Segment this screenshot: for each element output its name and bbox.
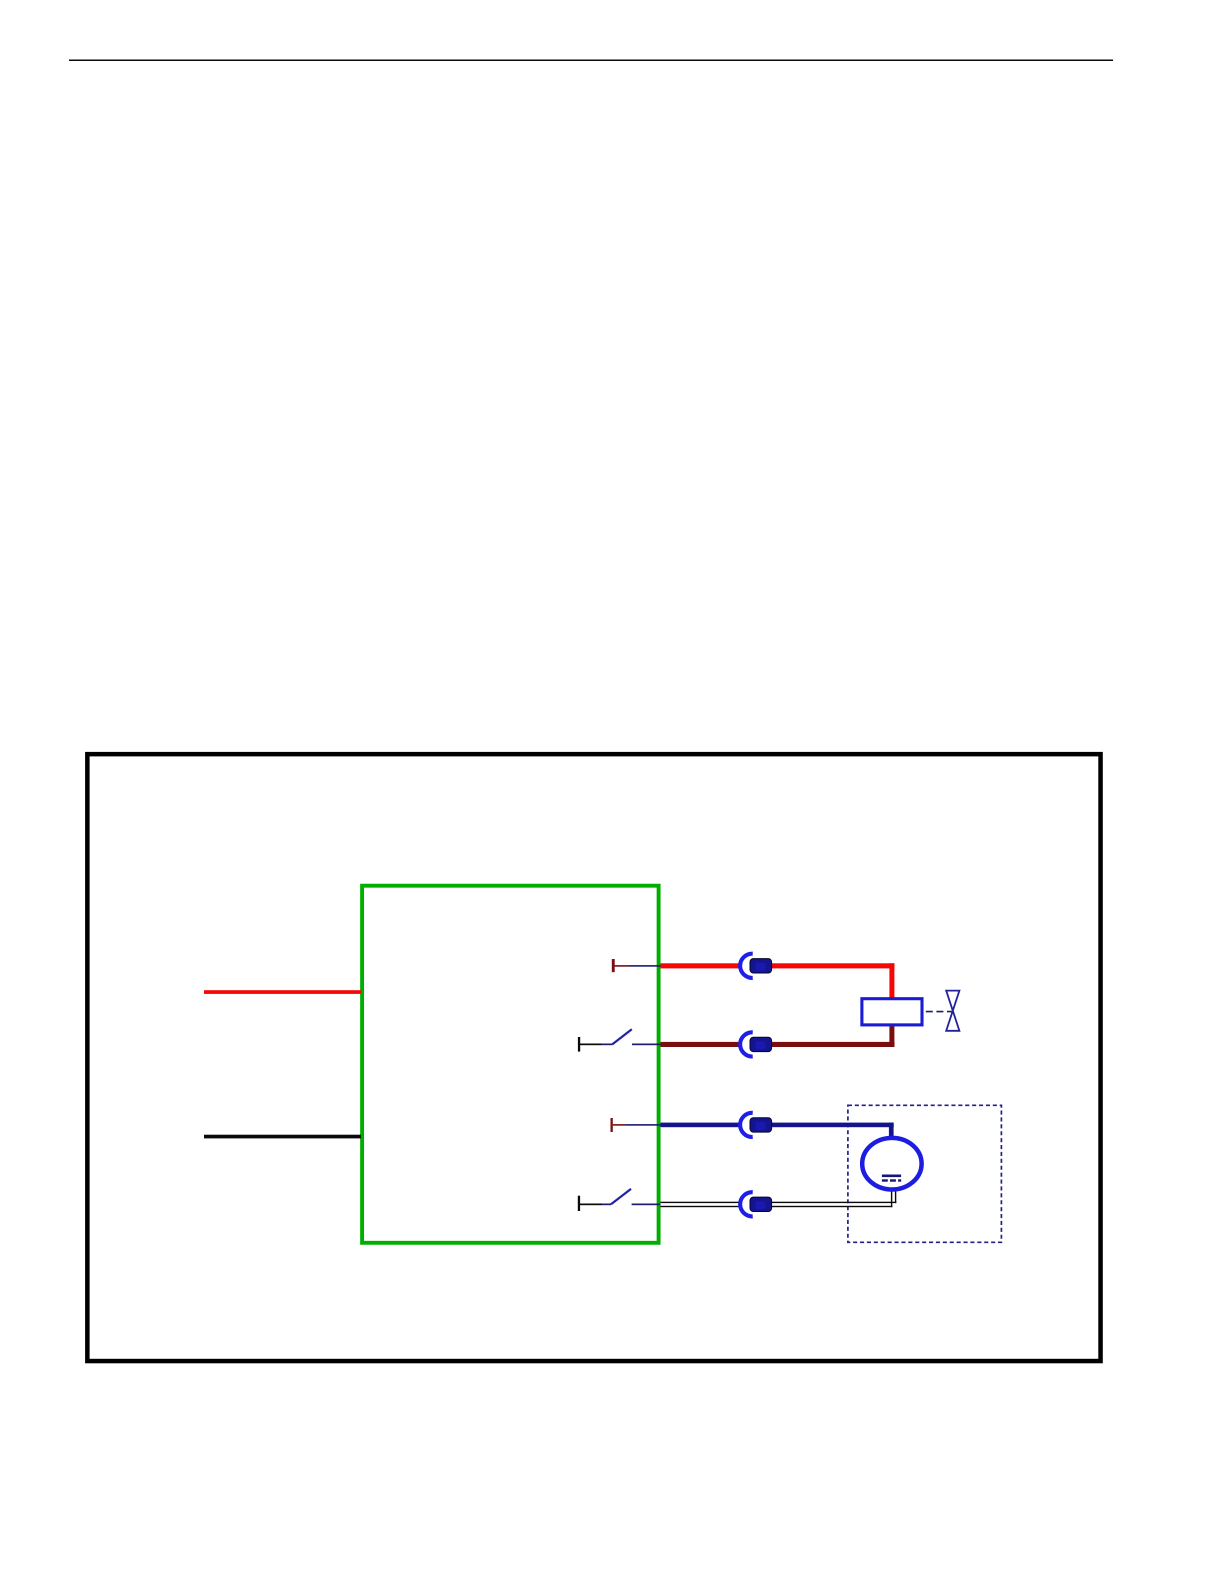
wire: navy output to pump motor xyxy=(661,1123,894,1139)
header rule xyxy=(69,60,1113,62)
pin 3 terminal xyxy=(611,1118,661,1132)
wire: maroon return from valve coil xyxy=(661,1025,895,1047)
pump motor M (DC) xyxy=(862,1138,921,1190)
connector on double-line return xyxy=(739,1191,772,1219)
wire: black ground input xyxy=(204,1135,361,1139)
wire: red supply input xyxy=(204,990,361,994)
switch S2 (pin 4) xyxy=(578,1189,661,1211)
diagram frame xyxy=(87,754,1100,1361)
solenoid valve coil xyxy=(862,999,922,1025)
connector on maroon return xyxy=(739,1031,772,1059)
wire: double-line return from pump motor xyxy=(661,1191,897,1208)
control unit box (green) xyxy=(362,886,658,1243)
valve body (bowtie) xyxy=(946,991,959,1031)
dashed actuator link xyxy=(926,1011,953,1013)
connector on navy output xyxy=(739,1111,772,1139)
dashed pump enclosure xyxy=(848,1105,1002,1242)
switch S1 (pin 2) xyxy=(578,1029,661,1051)
connector on red output xyxy=(739,952,772,980)
pin 1 terminal xyxy=(612,959,661,972)
wire: red output to valve coil xyxy=(661,963,895,999)
